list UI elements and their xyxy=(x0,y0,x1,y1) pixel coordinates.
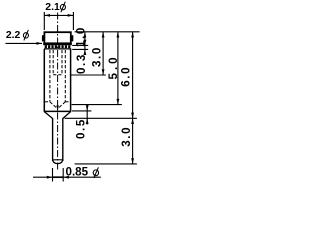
svg-text:0.5: 0.5 xyxy=(74,118,87,139)
svg-text:6.0: 6.0 xyxy=(120,66,133,87)
svg-text:0.3: 0.3 xyxy=(75,53,88,74)
svg-text:0.85: 0.85 xyxy=(66,166,89,179)
svg-text:5.0: 5.0 xyxy=(107,54,120,79)
svg-text:2.1: 2.1 xyxy=(45,2,60,13)
svg-text:3.0: 3.0 xyxy=(120,126,133,147)
svg-text:3.0: 3.0 xyxy=(90,46,103,67)
svg-text:1.0: 1.0 xyxy=(74,26,87,47)
svg-text:2.2: 2.2 xyxy=(6,30,21,41)
